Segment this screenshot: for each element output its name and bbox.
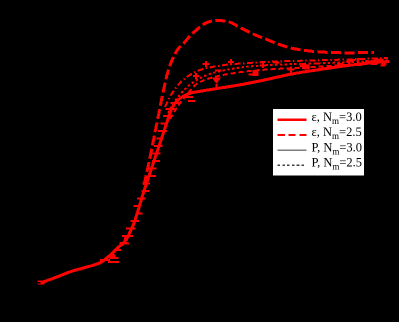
square marker mid band — [253, 70, 259, 76]
companion dashed curve (upper band) — [170, 62, 388, 119]
legend line: P Nm=3.0 gray solid — [278, 149, 307, 151]
curve epsilon Nm=2.5 dashed red with overshoot peak — [144, 21, 374, 186]
first data point tiny double error bar — [38, 281, 45, 284]
square marker right band — [304, 65, 310, 70]
legend line: epsilon Nm=2.5 red dashed — [278, 134, 307, 136]
curve P Nm=3.0 dash-dot red (upper band) — [165, 58, 388, 107]
data point marker dot on lower rise — [110, 237, 128, 259]
curve epsilon Nm=3.0 solid red with sigmoid rise — [42, 62, 388, 283]
error bar caps and ticks on upper band — [193, 58, 388, 80]
legend box — [273, 109, 365, 177]
triangle-down marker with stem near knee — [212, 78, 221, 85]
legend line: P Nm=2.5 dark fine dashed — [278, 164, 307, 166]
legend line: epsilon Nm=3.0 red solid — [278, 118, 307, 120]
error bar caps along steep rise — [100, 97, 195, 262]
curve P Nm=2.5 dotted red (upper band) — [168, 60, 388, 113]
